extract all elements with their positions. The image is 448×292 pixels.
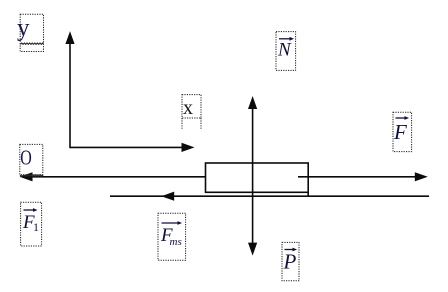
ground surface line xyxy=(110,195,429,197)
label box O (origin) xyxy=(20,144,43,176)
svg-text:x: x xyxy=(183,97,193,119)
label box N (vector N) xyxy=(276,32,296,71)
svg-text:F: F xyxy=(393,120,407,144)
svg-text:P: P xyxy=(283,250,297,274)
label box y xyxy=(17,14,44,51)
force arrow F1 (leftward line from block to left edge) xyxy=(20,172,206,181)
label box F1 (vector F1) xyxy=(21,202,42,246)
block right edge extension to ground xyxy=(307,192,309,196)
label box x xyxy=(182,95,201,129)
normal force arrow N (up) and weight arrow P (down), vertical line xyxy=(248,96,257,256)
label box P (vector P) xyxy=(282,242,299,280)
svg-text:ms: ms xyxy=(170,236,182,248)
svg-text:O: O xyxy=(20,146,32,170)
svg-text:y: y xyxy=(17,14,30,41)
force arrow F (rightward from block) xyxy=(298,172,428,181)
x-axis arrow xyxy=(70,143,195,152)
label box F (vector F) xyxy=(393,112,412,151)
svg-text:1: 1 xyxy=(33,220,39,234)
block (rectangle body) xyxy=(206,163,309,192)
label box Fms (vector Fms, friction) xyxy=(158,213,186,260)
svg-text:N: N xyxy=(277,40,292,61)
friction arrow Fms (left arrowhead on ground line) xyxy=(161,192,174,201)
y-axis arrow xyxy=(65,31,74,148)
